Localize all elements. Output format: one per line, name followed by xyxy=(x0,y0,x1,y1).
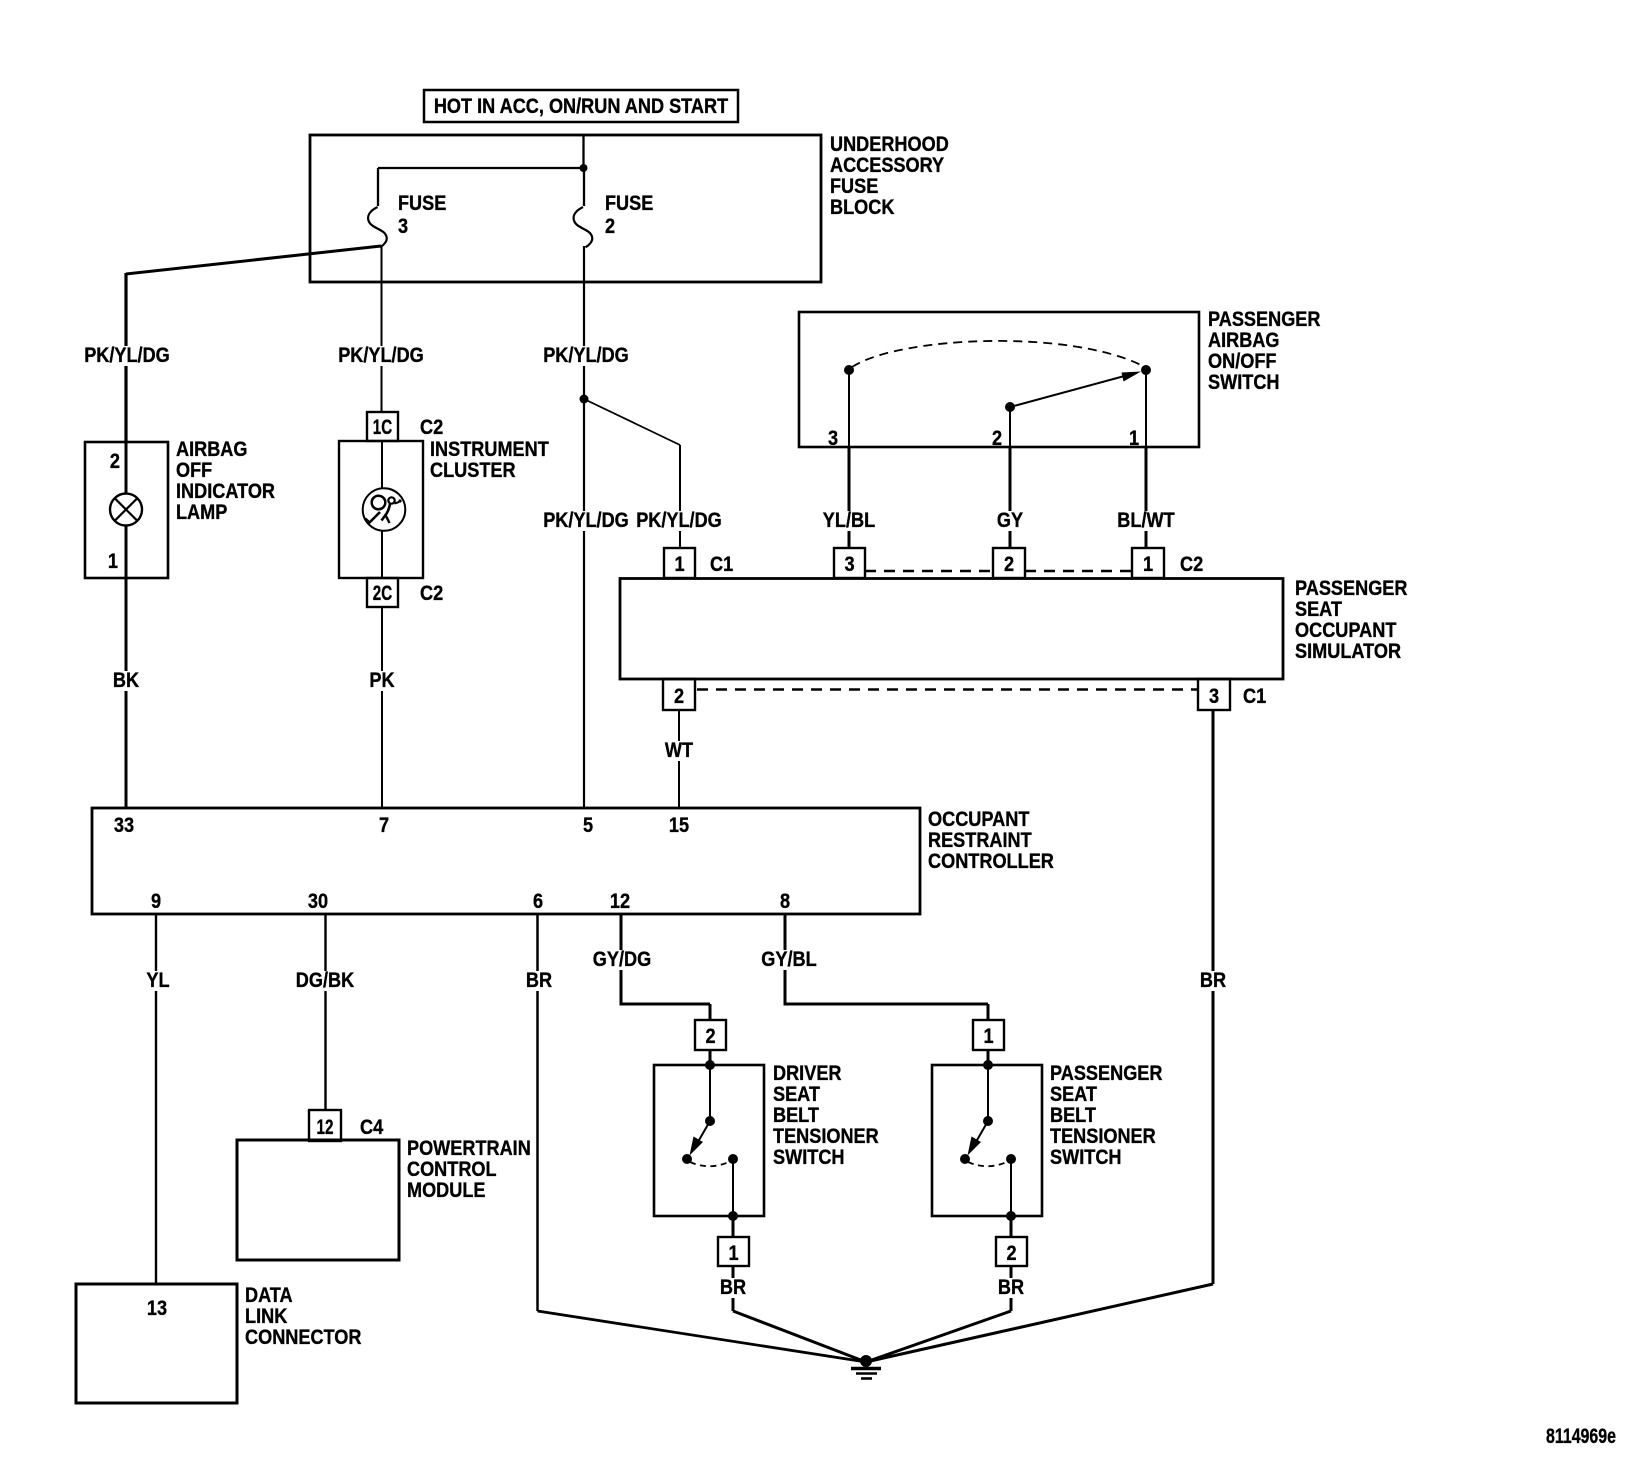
wire label BK xyxy=(110,668,142,692)
svg-text:C1: C1 xyxy=(710,552,733,576)
passenger switch top junction xyxy=(983,1060,993,1070)
wire WT simulator pin 2 to controller pin 15 xyxy=(678,710,680,808)
junction on fuse 2 feed xyxy=(580,395,589,404)
ground symbol G301 xyxy=(860,1355,872,1367)
passenger switch arrow xyxy=(977,1121,989,1141)
svg-text:3: 3 xyxy=(1209,684,1219,708)
driver switch internal wire xyxy=(709,1065,711,1121)
fuse 3 element symbol xyxy=(368,207,387,247)
svg-text:2: 2 xyxy=(1006,1241,1016,1265)
svg-text:2: 2 xyxy=(110,449,120,473)
wire branch to simulator (diagonal) xyxy=(584,399,680,445)
connector 1C box (cluster) xyxy=(367,412,398,441)
wire fuse 3 to lamp (diagonal) xyxy=(126,246,381,274)
wire BR simulator pin 3 to ground xyxy=(1212,710,1215,1284)
wire fuse 3 to instrument cluster xyxy=(381,246,383,412)
wire DG/BK controller pin 30 to PCM xyxy=(324,914,326,1110)
wire BR diagonal to ground (driver) xyxy=(733,1311,866,1362)
connector pin 2 box (passenger tensioner) xyxy=(996,1237,1027,1266)
driver seat belt tensioner switch box xyxy=(654,1065,764,1216)
switch arrow pin2 to pin1 xyxy=(1012,375,1130,407)
airbag off indicator lamp box xyxy=(85,442,168,578)
svg-text:1: 1 xyxy=(1129,426,1139,450)
svg-text:PK/YL/DG: PK/YL/DG xyxy=(543,343,629,367)
svg-text:3: 3 xyxy=(844,552,854,576)
wire label GY/BL xyxy=(758,947,819,971)
svg-text:FUSE: FUSE xyxy=(605,191,653,215)
wire GY/BL horizontal xyxy=(784,1003,989,1006)
svg-text:SWITCH: SWITCH xyxy=(1050,1145,1122,1169)
occupant restraint controller box xyxy=(92,808,920,914)
svg-text:1: 1 xyxy=(983,1024,993,1048)
svg-text:BR: BR xyxy=(998,1275,1025,1299)
svg-text:SIMULATOR: SIMULATOR xyxy=(1295,639,1401,663)
wire BK lamp to controller pin 33 xyxy=(125,578,128,808)
wire label PK/YL/DG (left) xyxy=(540,508,632,532)
wire label GY/DG xyxy=(590,947,654,971)
svg-text:1: 1 xyxy=(108,549,118,573)
passenger airbag on/off switch box xyxy=(799,312,1199,447)
wire branch to fuse 3 xyxy=(378,167,584,169)
svg-text:GY/DG: GY/DG xyxy=(593,947,651,971)
connector pin 1 C1 box (simulator top) xyxy=(664,548,695,578)
connector 2C box (cluster) xyxy=(367,578,398,607)
svg-text:C2: C2 xyxy=(1180,552,1203,576)
svg-text:YL: YL xyxy=(146,968,169,992)
connector C2 dashed link 3-2 xyxy=(865,570,993,572)
svg-text:SWITCH: SWITCH xyxy=(773,1145,845,1169)
driver switch left contact xyxy=(682,1154,692,1164)
passenger seat occupant simulator box xyxy=(620,579,1283,680)
data link connector box xyxy=(76,1284,237,1403)
svg-text:C2: C2 xyxy=(420,415,443,439)
wire BL/WT switch pin 1 to simulator xyxy=(1145,370,1147,548)
wire passenger tensioner to pin 2 box xyxy=(1010,1216,1013,1237)
svg-text:2: 2 xyxy=(605,214,615,238)
svg-text:HOT IN ACC, ON/RUN AND START: HOT IN ACC, ON/RUN AND START xyxy=(434,94,728,118)
svg-text:8: 8 xyxy=(780,889,790,913)
wire cluster internal bottom xyxy=(381,531,383,578)
svg-text:WT: WT xyxy=(665,738,693,762)
wire into driver tensioner switch xyxy=(709,1050,712,1065)
instrument cluster box xyxy=(339,441,423,578)
svg-text:2: 2 xyxy=(705,1024,715,1048)
svg-text:LAMP: LAMP xyxy=(176,500,227,524)
passenger switch right contact xyxy=(1006,1154,1016,1164)
passenger switch dashed arc xyxy=(968,1161,1009,1166)
wire label PK xyxy=(366,668,397,692)
lamp bulb symbol xyxy=(110,494,142,526)
wire BR passenger tensioner to ground xyxy=(1010,1266,1013,1311)
svg-text:12: 12 xyxy=(610,889,630,913)
svg-text:30: 30 xyxy=(308,889,328,913)
svg-text:BLOCK: BLOCK xyxy=(830,195,895,219)
wire label BR (right) xyxy=(1197,968,1229,992)
fuse 2 element symbol xyxy=(574,207,593,247)
svg-text:FUSE: FUSE xyxy=(398,191,446,215)
svg-text:PK/YL/DG: PK/YL/DG xyxy=(84,343,170,367)
svg-text:BL/WT: BL/WT xyxy=(1117,508,1174,532)
connector pin 2 C2 box xyxy=(993,548,1025,578)
wire lamp internal top xyxy=(125,442,128,494)
driver switch internal wire to pin 1 xyxy=(732,1159,734,1216)
svg-text:C1: C1 xyxy=(1243,684,1266,708)
connector C1 dashed link 2-3 xyxy=(697,688,1198,690)
wire GY/BL controller pin 8 xyxy=(784,914,787,1006)
svg-text:7: 7 xyxy=(379,813,389,837)
driver switch top junction xyxy=(705,1060,715,1070)
wire BR driver tensioner to ground xyxy=(732,1266,735,1311)
wire label PK/YL/DG (lamp feed) xyxy=(81,343,173,367)
wire BR diagonal to ground xyxy=(866,1284,1213,1362)
wire label YL xyxy=(143,968,172,992)
wire YL controller pin 9 to DLC xyxy=(155,914,157,1284)
wire label PK/YL/DG (fuse 2) xyxy=(540,343,632,367)
node HOT IN ACC, ON/RUN AND START header box xyxy=(424,90,738,122)
switch contact pin 2 xyxy=(1005,402,1015,412)
switch dashed travel arc xyxy=(852,341,1143,367)
svg-text:12: 12 xyxy=(317,1115,334,1139)
wire BR controller pin 6 to ground xyxy=(536,914,539,1311)
connector pin 3 C2 box xyxy=(834,548,865,578)
junction feed node xyxy=(580,164,588,172)
wire GY/DG controller pin 12 xyxy=(620,914,623,1006)
wire label DG/BK xyxy=(293,968,357,992)
svg-text:C4: C4 xyxy=(360,1115,383,1139)
svg-text:2: 2 xyxy=(674,684,684,708)
underhood accessory fuse block xyxy=(310,135,821,282)
svg-text:8114969e: 8114969e xyxy=(1546,1424,1616,1448)
svg-text:3: 3 xyxy=(398,214,408,238)
wire cluster internal top xyxy=(381,441,383,488)
svg-text:1: 1 xyxy=(728,1241,738,1265)
svg-text:CONNECTOR: CONNECTOR xyxy=(245,1325,362,1349)
svg-text:PK/YL/DG: PK/YL/DG xyxy=(636,508,722,532)
svg-text:1C: 1C xyxy=(373,415,392,439)
svg-text:1: 1 xyxy=(1143,552,1153,576)
wire label BL/WT xyxy=(1114,508,1177,532)
svg-text:PK/YL/DG: PK/YL/DG xyxy=(338,343,424,367)
wire PK cluster to controller pin 7 xyxy=(381,607,383,808)
driver switch bottom junction xyxy=(728,1211,738,1221)
connector pin 1 C2 box xyxy=(1132,548,1164,578)
wire label PK/YL/DG (cluster feed) xyxy=(335,343,427,367)
wire stub to fuse 2 xyxy=(583,168,585,206)
connector C2 dashed link 2-1 xyxy=(1025,570,1132,572)
driver switch right contact xyxy=(728,1154,738,1164)
passenger switch left contact xyxy=(960,1154,970,1164)
svg-text:3: 3 xyxy=(828,426,838,450)
svg-text:SWITCH: SWITCH xyxy=(1208,370,1280,394)
svg-text:6: 6 xyxy=(533,889,543,913)
wire label YL/BL xyxy=(820,508,878,532)
wire label PK/YL/DG (right) xyxy=(633,508,725,532)
wire GY/DG horizontal xyxy=(620,1003,711,1006)
switch contact pin 1 xyxy=(1141,365,1151,375)
wire label WT xyxy=(662,738,696,762)
driver switch dashed arc xyxy=(690,1161,731,1166)
svg-text:13: 13 xyxy=(147,1296,167,1320)
passenger switch common contact xyxy=(983,1116,993,1126)
passenger seat belt tensioner switch box xyxy=(932,1065,1042,1216)
svg-text:15: 15 xyxy=(669,813,689,837)
wire PK/YL/DG to airbag off indicator lamp xyxy=(124,273,127,442)
svg-text:YL/BL: YL/BL xyxy=(823,508,875,532)
wire to simulator pin 1 C1 xyxy=(679,445,681,548)
svg-text:PK/YL/DG: PK/YL/DG xyxy=(543,508,629,532)
passenger switch internal wire to pin 2 xyxy=(1010,1159,1012,1216)
svg-text:2C: 2C xyxy=(373,581,392,605)
svg-text:GY/BL: GY/BL xyxy=(761,947,816,971)
connector pin 2 C1 box (simulator bottom) xyxy=(663,679,695,710)
wire label GY xyxy=(994,508,1026,532)
svg-text:1: 1 xyxy=(674,552,684,576)
svg-text:9: 9 xyxy=(151,889,161,913)
wire driver tensioner to pin 1 box xyxy=(732,1216,735,1237)
svg-text:33: 33 xyxy=(114,813,134,837)
wire label BR (pin 6) xyxy=(523,968,555,992)
switch contact pin 3 xyxy=(844,365,854,375)
svg-text:2: 2 xyxy=(1004,552,1014,576)
connector pin 1 box (passenger tensioner) xyxy=(973,1020,1004,1050)
wire YL/BL switch pin 3 to simulator xyxy=(848,370,850,548)
svg-text:DG/BK: DG/BK xyxy=(296,968,355,992)
svg-text:BR: BR xyxy=(526,968,553,992)
svg-text:BR: BR xyxy=(1200,968,1227,992)
svg-text:BK: BK xyxy=(113,668,140,692)
svg-text:2: 2 xyxy=(992,426,1002,450)
svg-text:CONTROLLER: CONTROLLER xyxy=(928,849,1054,873)
powertrain control module box xyxy=(237,1140,399,1260)
wire label BR (passenger) xyxy=(995,1275,1027,1299)
svg-text:MODULE: MODULE xyxy=(407,1178,486,1202)
connector pin 2 box (driver tensioner) xyxy=(695,1020,726,1050)
wire PK/YL/DG fuse 2 to controller pin 5 xyxy=(583,246,585,808)
svg-text:C2: C2 xyxy=(420,581,443,605)
wire feed into fuse block xyxy=(582,135,584,168)
svg-text:BR: BR xyxy=(720,1275,747,1299)
wire into passenger tensioner switch xyxy=(987,1050,990,1065)
driver switch arrow xyxy=(699,1121,711,1141)
connector pin 1 box (driver tensioner) xyxy=(718,1237,749,1266)
airbag warning icon xyxy=(363,488,406,531)
connector pin 12 C4 box (PCM) xyxy=(309,1110,341,1141)
passenger switch bottom junction xyxy=(1006,1211,1016,1221)
svg-text:CLUSTER: CLUSTER xyxy=(430,458,516,482)
wire BR diagonal to ground (passenger) xyxy=(866,1311,1011,1362)
connector pin 3 C1 box (simulator bottom) xyxy=(1198,679,1230,710)
svg-text:PK: PK xyxy=(369,668,395,692)
driver switch common contact xyxy=(705,1116,715,1126)
wire lamp internal bottom xyxy=(125,526,128,579)
wire BR diagonal to ground (pin 6) xyxy=(538,1311,867,1362)
passenger switch internal wire xyxy=(987,1065,989,1121)
svg-text:GY: GY xyxy=(997,508,1023,532)
svg-text:5: 5 xyxy=(583,813,593,837)
wire GY switch pin 2 to simulator xyxy=(1009,407,1011,548)
wire label BR (driver) xyxy=(717,1275,749,1299)
